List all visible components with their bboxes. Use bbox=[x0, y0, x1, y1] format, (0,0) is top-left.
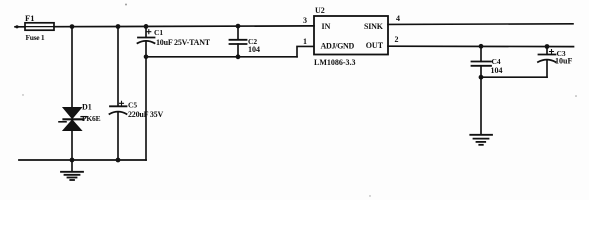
svg-text:2: 2 bbox=[395, 35, 399, 44]
svg-text:C4: C4 bbox=[492, 57, 501, 66]
junction at C2 on mid rail bbox=[236, 54, 241, 59]
wire: input stub left of fuse bbox=[15, 25, 25, 28]
svg-text:104: 104 bbox=[248, 45, 260, 54]
svg-text:3: 3 bbox=[303, 16, 307, 25]
scan speckles bbox=[22, 4, 577, 197]
wire: bottom ground rail bbox=[19, 159, 146, 161]
svg-text:C5: C5 bbox=[128, 100, 137, 109]
svg-text:ADJ/GND: ADJ/GND bbox=[321, 41, 355, 50]
junction at C1 on top net bbox=[144, 24, 149, 29]
svg-text:10uF: 10uF bbox=[555, 56, 572, 65]
junction at C5 on bottom rail bbox=[116, 158, 121, 163]
wire: bottom rail stub to left ground bbox=[71, 160, 73, 172]
capacitor C4 bbox=[472, 62, 492, 66]
svg-text:IN: IN bbox=[322, 22, 331, 31]
capacitor C3 (polarized) bbox=[538, 50, 556, 63]
capacitor C5 (polarized) bbox=[110, 101, 127, 114]
wire: mid ground rail (C1,C2,ADJ) bbox=[146, 56, 297, 58]
wire: U2 pin 2 OUT net to right edge bbox=[388, 45, 574, 47]
wire: C1 bottom through mid rail down to ground rail bbox=[145, 42, 147, 160]
junction at C1 on mid rail bbox=[144, 55, 149, 60]
ground (left) bbox=[61, 172, 83, 180]
fuse F1 bbox=[25, 23, 54, 30]
wire: C3 bottom down to output ground rail bbox=[546, 61, 548, 77]
wire: C2 bottom to mid rail bbox=[237, 44, 239, 57]
junction at D1 on bottom rail bbox=[70, 158, 75, 163]
junction at C4 on output ground rail bbox=[479, 75, 484, 80]
capacitor C1 (polarized) bbox=[138, 30, 155, 44]
svg-text:1: 1 bbox=[303, 37, 307, 46]
svg-text:OUT: OUT bbox=[366, 41, 384, 50]
ground (right) bbox=[470, 135, 492, 145]
junction at C5 on top net bbox=[116, 24, 121, 29]
op-amp U2 regulator LM1086 box bbox=[314, 16, 388, 55]
svg-text:U2: U2 bbox=[315, 6, 325, 15]
junction at C4 on OUT net bbox=[479, 44, 484, 49]
wire: C1 column from top net to C1 bbox=[145, 26, 147, 37]
wire: C5 column from top net to C5 bbox=[117, 27, 119, 107]
svg-text:10uF 25V-TANT: 10uF 25V-TANT bbox=[156, 38, 211, 47]
transient suppressor D1 (bidirectional TVS) bbox=[59, 108, 87, 131]
junction at D1 on top net bbox=[70, 24, 75, 29]
wire: U2 pin 4 SINK net to right edge bbox=[388, 23, 573, 26]
wire: C4 column from OUT net to C4 bbox=[480, 46, 482, 61]
svg-text:C1: C1 bbox=[154, 28, 163, 37]
wire: D1 column from top net down to D1 bbox=[71, 27, 73, 108]
svg-text:SINK: SINK bbox=[364, 22, 384, 31]
junction at C2 on top net bbox=[236, 24, 241, 29]
wire: C2 column from top net to C2 bbox=[237, 26, 239, 39]
svg-text:104: 104 bbox=[491, 66, 503, 75]
wire: C5 bottom to ground rail bbox=[117, 113, 119, 161]
wire: output ground rail C4 to C3 bbox=[481, 76, 547, 78]
wire: top net from fuse to U2 pin 3 (IN) bbox=[54, 25, 314, 28]
wire: C4 bottom to output ground rail bbox=[480, 66, 482, 77]
svg-text:PK6E: PK6E bbox=[82, 114, 101, 123]
svg-text:D1: D1 bbox=[82, 102, 92, 111]
wire: C4 junction down to right ground bbox=[480, 77, 482, 134]
svg-text:LM1086-3.3: LM1086-3.3 bbox=[314, 58, 356, 67]
wire: D1 bottom to ground rail bbox=[71, 131, 73, 161]
wire: C3 column from OUT net to C3 bbox=[546, 47, 548, 55]
wire: mid rail step up to U2 pin 1 bbox=[297, 46, 314, 56]
junction at C3 on OUT net bbox=[545, 44, 550, 49]
svg-text:4: 4 bbox=[396, 14, 400, 23]
capacitor C2 bbox=[230, 40, 247, 44]
svg-text:Fuse 1: Fuse 1 bbox=[26, 33, 45, 42]
svg-text:F1: F1 bbox=[25, 13, 34, 23]
